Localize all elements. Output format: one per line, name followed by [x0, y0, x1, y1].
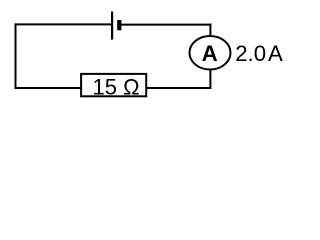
wire left vertical — [15, 23, 17, 88]
ammeter A1 circle — [190, 36, 231, 70]
wire right vertical — [209, 24, 211, 89]
battery short thick plate (negative) — [117, 20, 121, 30]
battery long plate (positive) — [111, 12, 113, 40]
wire top-right segment — [119, 24, 211, 26]
svg-text:A: A — [202, 41, 218, 66]
resistor R1 box — [81, 74, 146, 96]
svg-text:A: A — [268, 41, 283, 66]
wire top-left segment — [15, 23, 112, 25]
svg-text:15 Ω: 15 Ω — [92, 74, 139, 99]
svg-text:2.0: 2.0 — [235, 41, 266, 66]
wire bottom horizontal — [15, 87, 212, 89]
